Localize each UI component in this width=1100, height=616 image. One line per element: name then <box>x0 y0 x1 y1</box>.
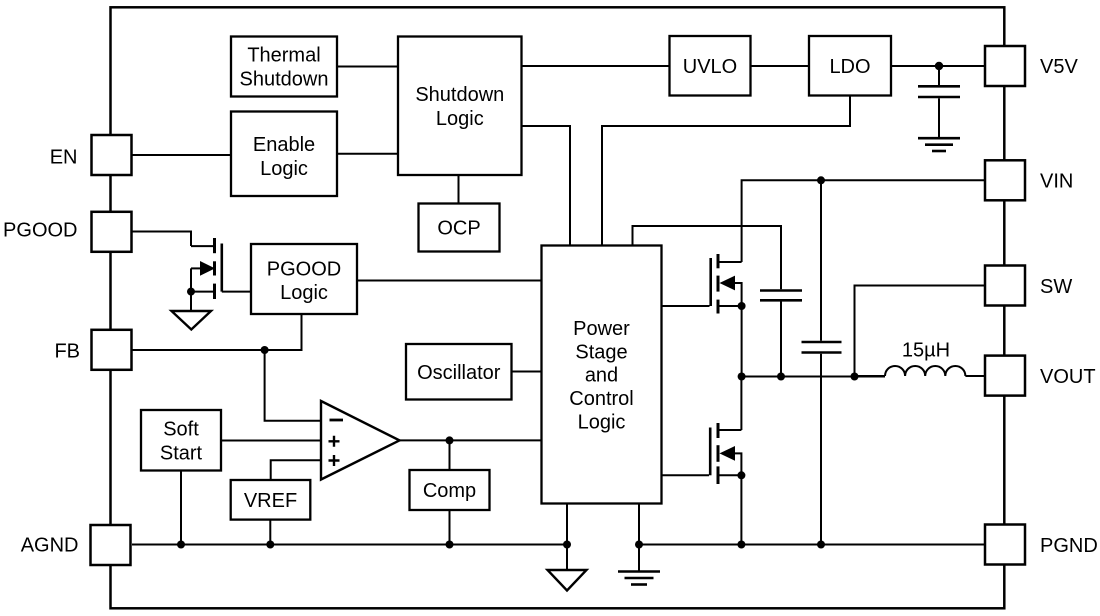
svg-text:PGOOD: PGOOD <box>267 259 341 281</box>
node Q3 source junction <box>737 471 745 479</box>
node comp junction <box>446 436 454 444</box>
pin SW <box>985 266 1025 306</box>
wire VREF to AGND rail <box>269 520 271 545</box>
pin AGND <box>91 525 131 565</box>
svg-text:and: and <box>585 365 618 387</box>
wire FB pin to PGOOD Logic bottom <box>132 314 302 350</box>
chip boundary border <box>111 7 1005 608</box>
inductor L1 15uH <box>855 366 986 376</box>
svg-text:Logic: Logic <box>260 158 308 180</box>
svg-text:Oscillator: Oscillator <box>417 362 501 384</box>
svg-text:LDO: LDO <box>829 56 870 78</box>
pin PGND <box>985 525 1025 565</box>
wire comp node to Comp block <box>449 440 451 470</box>
block Thermal Shutdown <box>231 37 337 97</box>
wire Power Stage to AGND node <box>566 504 568 571</box>
ground analog triangle under Q1 <box>172 311 212 330</box>
wire FB node to op-amp inverting input <box>265 350 322 421</box>
node Q1 source junction <box>187 288 195 296</box>
wire Q3 gate from Power Stage <box>662 474 710 476</box>
svg-text:FB: FB <box>54 340 80 362</box>
wire Soft Start to op-amp plus input <box>221 440 322 442</box>
block Soft Start <box>141 410 221 471</box>
wire Soft Start to AGND rail <box>180 471 182 545</box>
wire Power Stage to PGND node <box>638 504 640 572</box>
op-amp U1 error amplifier <box>321 401 400 480</box>
svg-text:Start: Start <box>160 443 203 465</box>
wire PGOOD pin to transistor Q1 drain <box>132 232 191 247</box>
wire Q3 source to PGND rail <box>740 475 742 544</box>
transistor Q2 (high-side FET) <box>711 254 742 314</box>
pin FB <box>92 330 132 370</box>
capacitor C3 (bootstrap) <box>760 291 802 377</box>
wire Shutdown Logic to Power Stage top <box>522 126 571 246</box>
wire Q2 source to SW rail <box>741 306 743 377</box>
node Power Stage PGND junction <box>635 541 643 549</box>
pin VOUT <box>985 356 1025 396</box>
block Comp <box>410 470 490 510</box>
node Q2 source junction <box>738 302 746 310</box>
node SW rail pin junction <box>851 373 859 381</box>
wire Enable Logic to Shutdown Logic <box>337 153 398 155</box>
svg-text:Control: Control <box>569 388 633 410</box>
svg-text:SW: SW <box>1040 276 1072 298</box>
wire bootstrap Power Stage to C3 <box>633 226 782 289</box>
wire Shutdown Logic to UVLO <box>522 65 670 67</box>
wire SW pin to SW rail <box>855 286 986 377</box>
svg-text:Comp: Comp <box>423 480 476 502</box>
wire Shutdown Logic to OCP <box>458 175 460 204</box>
svg-text:Power: Power <box>573 318 630 340</box>
wire Q3 drain to SW rail <box>740 377 742 431</box>
svg-text:Enable: Enable <box>253 134 315 156</box>
node C2 PGND junction <box>817 541 825 549</box>
svg-text:Shutdown: Shutdown <box>415 84 504 106</box>
transistor Q3 (low-side FET) <box>710 423 741 484</box>
node Power Stage AGND junction <box>563 541 571 549</box>
pin V5V <box>985 46 1025 86</box>
svg-text:OCP: OCP <box>437 218 480 240</box>
wire Oscillator to Power Stage <box>512 371 542 373</box>
wire LDO bottom to Power Stage top <box>602 96 850 247</box>
pin VIN <box>985 160 1025 200</box>
wire VIN pin to Q2 drain <box>742 180 985 262</box>
wire Thermal Shutdown to Shutdown Logic <box>337 66 398 68</box>
svg-text:Logic: Logic <box>280 282 328 304</box>
wire VREF to op-amp second plus input <box>271 460 322 480</box>
block LDO <box>809 36 891 96</box>
block PGOOD Logic <box>251 244 357 314</box>
wire LDO to V5V pin <box>891 65 985 67</box>
pin PGOOD <box>92 212 132 252</box>
wire Q1 source to ground <box>190 292 192 311</box>
capacitor C1 (V5V bypass) <box>918 66 960 137</box>
svg-text:UVLO: UVLO <box>683 56 737 78</box>
svg-text:Soft: Soft <box>163 419 199 441</box>
wire UVLO to LDO <box>751 65 810 67</box>
block Shutdown Logic <box>398 37 522 176</box>
svg-text:AGND: AGND <box>21 534 79 556</box>
node Comp AGND junction <box>446 541 454 549</box>
svg-text:Logic: Logic <box>578 412 626 434</box>
block Enable Logic <box>231 112 337 197</box>
svg-text:Shutdown: Shutdown <box>240 69 329 91</box>
capacitor C2 plates <box>802 342 842 545</box>
block OCP <box>419 204 500 252</box>
block VREF <box>231 480 311 520</box>
wire Q1 gate to PGOOD Logic <box>222 291 251 293</box>
svg-text:V5V: V5V <box>1040 56 1078 78</box>
node VREF AGND junction <box>266 541 274 549</box>
ground analog triangle under Power Stage <box>548 570 587 591</box>
svg-text:Logic: Logic <box>436 108 484 130</box>
node SW rail C3 junction <box>777 373 785 381</box>
block Power Stage and Control Logic <box>542 246 662 504</box>
wire op-amp output to Power Stage <box>400 439 542 441</box>
wire Comp block to AGND rail <box>449 510 451 545</box>
svg-text:Stage: Stage <box>575 341 627 363</box>
wire PGND rail <box>639 544 985 546</box>
svg-text:15µH: 15µH <box>902 340 950 362</box>
block UVLO <box>670 36 751 96</box>
ground earth symbol under Power Stage <box>618 572 660 585</box>
svg-text:VIN: VIN <box>1040 171 1073 193</box>
node Soft Start AGND junction <box>177 541 185 549</box>
svg-text:VREF: VREF <box>244 490 297 512</box>
node Q3 PGND junction <box>737 541 745 549</box>
capacitor C2 (input cap) wire top <box>820 180 822 340</box>
svg-text:EN: EN <box>50 146 78 168</box>
node VIN cap junction <box>817 176 825 184</box>
pin EN <box>92 135 132 175</box>
wire AGND rail <box>132 544 567 546</box>
svg-text:Thermal: Thermal <box>247 45 320 67</box>
node FB junction <box>261 346 269 354</box>
transistor Q1 (PGOOD pull-down FET) <box>191 238 222 299</box>
wire Q2 gate from Power Stage <box>662 305 710 307</box>
node SW rail Q2 junction <box>738 373 746 381</box>
node V5V cap junction <box>935 62 943 70</box>
wire PGOOD Logic to Power Stage <box>357 280 542 282</box>
ground earth symbol under C1 <box>918 138 960 151</box>
block Oscillator <box>406 344 512 400</box>
svg-text:PGOOD: PGOOD <box>3 220 77 242</box>
wire SW rail <box>741 376 885 378</box>
wire EN pin to Enable Logic <box>132 154 231 156</box>
svg-text:VOUT: VOUT <box>1040 366 1096 388</box>
svg-text:PGND: PGND <box>1040 535 1098 557</box>
